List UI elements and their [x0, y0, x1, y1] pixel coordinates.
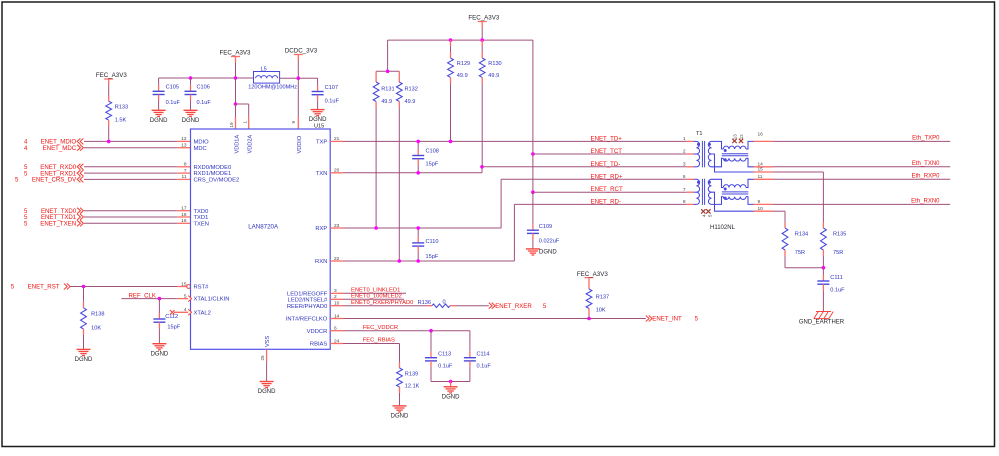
svg-text:0: 0: [442, 299, 445, 305]
svg-text:R139: R139: [405, 371, 418, 377]
wire LED1 row + net label ENET0_LINKLED1: [330, 288, 406, 294]
wire to ENET_RXER port: [456, 305, 489, 307]
net label Eth_TXP0: [912, 136, 940, 142]
wire pin15 to R135: [773, 172, 823, 222]
resistor R138: [81, 287, 105, 350]
ground DGND (VSS): [258, 382, 276, 396]
wire ENET_RXD1: [84, 172, 191, 174]
svg-text:9: 9: [291, 121, 296, 124]
wire FEC_A3V3 termination bus: [376, 28, 533, 155]
svg-text:Eth_TXP0: Eth_TXP0: [912, 136, 940, 142]
svg-text:75R: 75R: [795, 250, 805, 256]
ic pin numbers left: [181, 136, 187, 313]
svg-text:1.5K: 1.5K: [115, 117, 127, 123]
svg-text:15pF: 15pF: [167, 325, 180, 331]
svg-text:10K: 10K: [91, 326, 101, 332]
port ENET_TXD1: [24, 214, 83, 221]
wire PHYAD0 row + net label ENET0_RXER/PHYAD0: [330, 300, 426, 306]
svg-text:DGND: DGND: [182, 118, 200, 124]
svg-text:C113: C113: [438, 351, 451, 357]
pin number 19 (VDD1A): [229, 122, 234, 128]
ic pin names right: [286, 140, 328, 348]
svg-text:DGND: DGND: [151, 351, 169, 357]
svg-text:12.1K: 12.1K: [405, 384, 420, 390]
clock arrow XTAL2 pin: [188, 309, 191, 315]
wire ENET_RCT row: [533, 191, 687, 193]
svg-text:ENET_CRS_DV: ENET_CRS_DV: [32, 177, 77, 184]
no-connect X pins 13/12: [732, 134, 744, 143]
svg-text:ENET_TD+: ENET_TD+: [591, 135, 623, 142]
svg-text:H1102NL: H1102NL: [710, 225, 736, 231]
svg-text:8: 8: [683, 199, 686, 205]
wire LED2 row + net label ENET0_100MLED2: [330, 294, 404, 300]
transformer T1 upper section (TX): [694, 131, 754, 172]
svg-text:VDDIO: VDDIO: [297, 135, 303, 153]
svg-text:0.1uF: 0.1uF: [197, 100, 212, 106]
svg-text:16: 16: [758, 132, 764, 138]
pin 15 bubble RST#: [187, 285, 191, 289]
wire Eth_RXP0: [773, 178, 950, 180]
svg-text:5: 5: [11, 284, 15, 291]
svg-text:FEC_A3V3: FEC_A3V3: [468, 15, 500, 22]
port ENET_CRS_DV: [15, 176, 83, 183]
svg-text:XTAL2: XTAL2: [194, 310, 211, 316]
svg-text:17: 17: [181, 206, 187, 212]
svg-text:C111: C111: [830, 275, 843, 281]
svg-text:C112: C112: [165, 314, 178, 320]
svg-text:DGND: DGND: [150, 118, 168, 124]
svg-text:VDDCR: VDDCR: [307, 329, 328, 335]
svg-text:ENET_RCT: ENET_RCT: [591, 186, 623, 193]
wire RXN row: [330, 204, 514, 261]
svg-text:TXD0: TXD0: [194, 209, 209, 215]
ground DGND (R139): [391, 406, 409, 420]
wire RXP row: [330, 179, 501, 228]
capacitor C107: [312, 85, 340, 109]
transformer T1 value H1102NL: [710, 225, 736, 231]
svg-text:15pF: 15pF: [426, 254, 439, 260]
svg-text:C109: C109: [539, 224, 552, 230]
wire XTAL2 stub (nc): [174, 311, 191, 313]
net label ENET_TD+: [591, 135, 623, 142]
net label ENET_TD-: [591, 161, 621, 168]
svg-text:RST#: RST#: [194, 285, 210, 291]
port ENET_INT: [646, 316, 699, 323]
svg-text:TXD1: TXD1: [194, 215, 209, 221]
transformer T1 pin stubs right: [754, 132, 774, 142]
svg-text:11: 11: [758, 174, 763, 180]
svg-text:11: 11: [182, 174, 187, 180]
svg-text:R136: R136: [418, 300, 431, 306]
net label ENET_RD+: [591, 173, 623, 180]
svg-text:8: 8: [184, 162, 187, 168]
net label ENET_RD-: [591, 198, 621, 205]
wire ENET_RST: [71, 285, 187, 289]
port ENET_RST: [11, 284, 70, 291]
svg-text:19: 19: [229, 122, 234, 128]
svg-text:C106: C106: [197, 85, 210, 91]
wire ENET_TXD0: [84, 210, 191, 212]
svg-text:ENET_RXER: ENET_RXER: [495, 303, 532, 310]
port ENET_MDIO: [24, 138, 83, 145]
svg-text:ENET_RD+: ENET_RD+: [591, 173, 623, 180]
svg-text:REER/PHYAD0: REER/PHYAD0: [287, 304, 327, 310]
svg-text:R134: R134: [795, 232, 808, 238]
svg-text:1: 1: [242, 121, 247, 124]
svg-text:TXP: TXP: [316, 140, 327, 146]
capacitor C106: [185, 78, 212, 110]
no-connect X pins 4/5: [701, 209, 712, 217]
svg-text:10K: 10K: [596, 307, 606, 313]
pin number 1 (VDD2A): [242, 121, 247, 124]
resistor R136: [418, 299, 456, 307]
wire TXN row: [330, 167, 482, 173]
ground DGND (C113/C114): [442, 382, 460, 401]
port ENET_TXEN: [24, 220, 83, 227]
svg-text:R130: R130: [488, 61, 501, 67]
svg-text:MDIO: MDIO: [194, 140, 210, 146]
wire Eth_TXN0: [773, 166, 950, 168]
svg-text:T1: T1: [696, 131, 703, 137]
wire DCDC_3V3 node: [280, 61, 318, 130]
svg-text:12: 12: [181, 136, 187, 142]
svg-text:DGND: DGND: [75, 357, 93, 363]
svg-text:0.1uF: 0.1uF: [477, 364, 492, 370]
svg-text:0.1uF: 0.1uF: [830, 288, 845, 294]
port ENET_TXD0: [24, 208, 83, 215]
net label REF_CLK: [129, 293, 156, 300]
svg-text:RXN: RXN: [315, 259, 327, 265]
svg-text:U15: U15: [314, 124, 324, 130]
svg-text:13: 13: [733, 134, 738, 139]
wire VDD1A/VDD2A branch: [234, 78, 249, 129]
port ENET_RXD1: [24, 170, 83, 177]
resistor R133: [106, 85, 128, 141]
svg-text:RXD1/MODE1: RXD1/MODE1: [194, 171, 232, 177]
svg-text:7: 7: [184, 168, 187, 174]
ic U15 LAN8720A body: [191, 124, 331, 350]
svg-text:14: 14: [758, 161, 764, 167]
wire TXP/ENET_TD+ row: [330, 140, 686, 142]
resistor R131: [373, 71, 394, 230]
wire VDDCR row + net label FEC_VDDCR: [330, 325, 470, 333]
ic pin names left: [194, 140, 240, 317]
wire RBIAS row + net label FEC_RBIAS: [330, 338, 399, 362]
svg-text:0.022uF: 0.022uF: [539, 239, 560, 245]
ground DGND (C105): [150, 110, 168, 124]
svg-text:10: 10: [758, 206, 764, 212]
svg-text:49.9: 49.9: [457, 73, 468, 79]
svg-text:DCDC_3V3: DCDC_3V3: [285, 48, 318, 55]
svg-text:75R: 75R: [833, 250, 843, 256]
svg-text:Eth_RXN0: Eth_RXN0: [911, 199, 940, 205]
resistor R139: [397, 362, 420, 406]
power FEC_A3V3 (termination bus): [468, 15, 500, 28]
wire FEC_A3V3 bus: [159, 63, 254, 80]
wire ENET_MDIO: [84, 140, 191, 142]
wire INT row: [330, 317, 646, 321]
wire ENET_TCT row: [533, 153, 687, 155]
svg-text:R131: R131: [381, 87, 394, 93]
wire C113/C114 ground bus: [431, 380, 470, 384]
svg-text:1: 1: [683, 136, 686, 142]
wire ENET_TXEN: [84, 222, 191, 224]
resistor R129: [448, 40, 471, 143]
svg-text:VSS: VSS: [265, 336, 271, 347]
resistor R135: [821, 222, 847, 268]
resistor R134: [782, 222, 808, 268]
wire REF_CLK: [121, 297, 190, 301]
svg-text:120OHM@100MHz: 120OHM@100MHz: [248, 85, 297, 91]
svg-text:CRS_DV/MODE2: CRS_DV/MODE2: [194, 178, 240, 184]
svg-text:MDC: MDC: [194, 146, 207, 152]
svg-text:FEC_A3V3: FEC_A3V3: [96, 72, 128, 79]
svg-text:DGND: DGND: [442, 394, 460, 400]
inductor L5: [248, 67, 297, 91]
ground DGND (C106): [182, 110, 200, 124]
capacitor C111: [817, 268, 845, 312]
svg-text:ENET_INT: ENET_INT: [652, 316, 682, 323]
wire ENET_CRS_DV: [84, 178, 191, 180]
capacitor C112: [153, 299, 180, 344]
net label ENET_RCT: [591, 186, 623, 193]
capacitor C109: [527, 224, 560, 249]
port ENET_RXD0: [24, 164, 83, 171]
svg-text:C114: C114: [477, 351, 490, 357]
svg-text:L5: L5: [261, 67, 267, 73]
net label Eth_RXP0: [911, 174, 940, 180]
wire Eth_RXN0: [773, 203, 950, 205]
power DCDC_3V3: [285, 48, 318, 61]
svg-text:RXP: RXP: [315, 226, 327, 232]
junction R133/ENET_MDIO: [107, 140, 111, 144]
svg-text:2: 2: [683, 149, 686, 155]
svg-text:49.9: 49.9: [488, 73, 499, 79]
svg-text:C107: C107: [325, 85, 338, 91]
svg-text:49.9: 49.9: [381, 99, 392, 105]
wire ENET_MDC: [84, 147, 191, 149]
wire ENET_TD- row: [482, 166, 687, 168]
svg-text:R132: R132: [405, 87, 418, 93]
ic pin numbers right: [334, 136, 340, 344]
svg-text:6: 6: [683, 174, 686, 180]
svg-text:15: 15: [181, 281, 187, 287]
svg-text:FEC_RBIAS: FEC_RBIAS: [363, 338, 395, 344]
svg-text:FEC_A3V3: FEC_A3V3: [220, 50, 252, 57]
svg-text:15: 15: [758, 167, 764, 173]
svg-text:RBIAS: RBIAS: [310, 342, 328, 348]
ground DGND (C107): [309, 110, 327, 124]
pin number 9 (VDDIO): [291, 121, 296, 124]
svg-text:INT#/REFCLKO: INT#/REFCLKO: [286, 317, 328, 323]
svg-text:TXN: TXN: [316, 171, 328, 177]
svg-text:Eth_TXN0: Eth_TXN0: [912, 161, 940, 167]
svg-text:0.1uF: 0.1uF: [438, 364, 453, 370]
svg-text:13: 13: [181, 143, 187, 149]
ground DGND (R138): [75, 349, 93, 363]
power FEC_A3V3 (C105 bus): [220, 50, 252, 63]
svg-text:DGND: DGND: [539, 250, 557, 256]
svg-text:ENET_MDC: ENET_MDC: [43, 145, 77, 152]
clock arrow XTAL1 pin: [188, 296, 191, 302]
wire pin10 to R134: [773, 211, 785, 222]
no-connect X XTAL2: [170, 310, 174, 314]
svg-text:ENET_TD-: ENET_TD-: [591, 161, 621, 168]
svg-text:R137: R137: [596, 294, 609, 300]
svg-text:LED2/INTSEL#: LED2/INTSEL#: [288, 297, 328, 303]
ground DGND (C109): [526, 249, 557, 256]
svg-text:ENET_TCT: ENET_TCT: [591, 148, 623, 155]
svg-text:3: 3: [683, 161, 686, 167]
svg-text:ENET0_100MLED2: ENET0_100MLED2: [351, 294, 402, 300]
svg-text:R129: R129: [457, 61, 470, 67]
net label Eth_RXN0: [911, 199, 940, 205]
svg-text:FEC_A3V3: FEC_A3V3: [577, 271, 609, 278]
svg-text:TXEN: TXEN: [194, 221, 209, 227]
ground DGND (C112): [151, 344, 169, 358]
svg-text:DGND: DGND: [258, 389, 276, 395]
port ENET_RXER: [489, 303, 547, 310]
svg-text:Eth_RXP0: Eth_RXP0: [911, 174, 940, 180]
capacitor C113: [425, 331, 453, 382]
svg-text:0.1uF: 0.1uF: [325, 99, 340, 105]
wire ENET_RD+ row: [501, 178, 686, 180]
svg-text:C110: C110: [426, 239, 439, 245]
wire ENET_RD- row: [514, 203, 686, 205]
wire ENET_RXD0: [84, 166, 191, 168]
net label ENET_TCT: [591, 148, 623, 155]
transformer T1 lower section (RX): [694, 179, 754, 211]
capacitor C108: [412, 140, 439, 175]
svg-text:C105: C105: [166, 85, 179, 91]
svg-text:7: 7: [683, 187, 686, 193]
resistor R130: [479, 40, 501, 167]
wire ENET_TXD1: [84, 216, 191, 218]
wire FEC_A3V3 center-tap vertical: [531, 152, 535, 224]
svg-text:ENET_TXEN: ENET_TXEN: [40, 221, 76, 228]
capacitor C110: [412, 226, 439, 263]
svg-text:RXD0/MODE0: RXD0/MODE0: [194, 165, 232, 171]
capacitor C114: [464, 331, 491, 382]
ic pin names top/bottom rotated: [234, 135, 303, 347]
net label Eth_TXN0: [912, 161, 940, 167]
power FEC_A3V3 (R137): [577, 271, 609, 284]
svg-text:DGND: DGND: [391, 414, 409, 420]
junction TXN/R130: [480, 165, 484, 169]
svg-text:25: 25: [260, 355, 265, 361]
ground GND_EARTHER (chassis): [799, 312, 845, 326]
svg-text:R138: R138: [91, 312, 104, 318]
svg-text:ENET0_RXER/PHYAD0: ENET0_RXER/PHYAD0: [351, 300, 413, 306]
svg-text:ENET_RD-: ENET_RD-: [591, 198, 621, 205]
svg-text:GND_EARTHER: GND_EARTHER: [799, 319, 845, 325]
port ENET_MDC: [24, 145, 83, 152]
vss pin 25 wire: [260, 349, 267, 381]
svg-text:18: 18: [181, 212, 187, 218]
resistor R137: [586, 284, 609, 319]
svg-text:49.9: 49.9: [405, 99, 416, 105]
svg-text:9: 9: [758, 199, 761, 205]
svg-text:C108: C108: [426, 149, 439, 155]
svg-text:LAN8720A: LAN8720A: [248, 224, 279, 231]
svg-text:DGND: DGND: [309, 117, 327, 123]
capacitor C105: [153, 78, 181, 110]
svg-text:XTAL1/CLKIN: XTAL1/CLKIN: [194, 297, 230, 303]
svg-text:FEC_VDDCR: FEC_VDDCR: [363, 325, 398, 331]
svg-text:ENET_RST: ENET_RST: [28, 284, 60, 291]
svg-text:12: 12: [739, 134, 744, 139]
resistor R132: [396, 71, 417, 263]
svg-text:VDD1A: VDD1A: [234, 135, 240, 154]
svg-text:16: 16: [181, 218, 187, 224]
svg-text:R135: R135: [833, 232, 846, 238]
wire R134/R135 join: [785, 266, 825, 270]
wire Eth_TXP0: [773, 140, 950, 142]
svg-text:0.1uF: 0.1uF: [166, 100, 181, 106]
power FEC_A3V3 (R133): [96, 72, 128, 85]
svg-text:R133: R133: [115, 105, 128, 111]
transformer T1 pin stubs left: [683, 136, 694, 142]
svg-text:VDD2A: VDD2A: [248, 135, 254, 154]
svg-text:15pF: 15pF: [426, 162, 439, 168]
